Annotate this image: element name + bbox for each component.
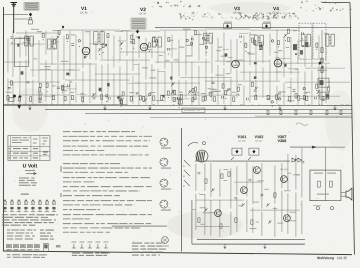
svg-text:AC 117: AC 117 — [255, 140, 263, 143]
svg-text:Wolfsburg: Wolfsburg — [317, 256, 334, 260]
svg-text:EC 92: EC 92 — [80, 11, 88, 15]
svg-text:V101: V101 — [238, 135, 247, 139]
svg-text:V308: V308 — [278, 139, 287, 143]
svg-text:EF 97: EF 97 — [140, 12, 147, 16]
svg-text:AC 151: AC 151 — [238, 140, 246, 143]
svg-text:V102: V102 — [255, 135, 264, 139]
svg-text:U Volt: U Volt — [23, 164, 38, 170]
svg-text:110.35: 110.35 — [337, 256, 347, 260]
svg-text:AD 161: AD 161 — [280, 168, 288, 171]
